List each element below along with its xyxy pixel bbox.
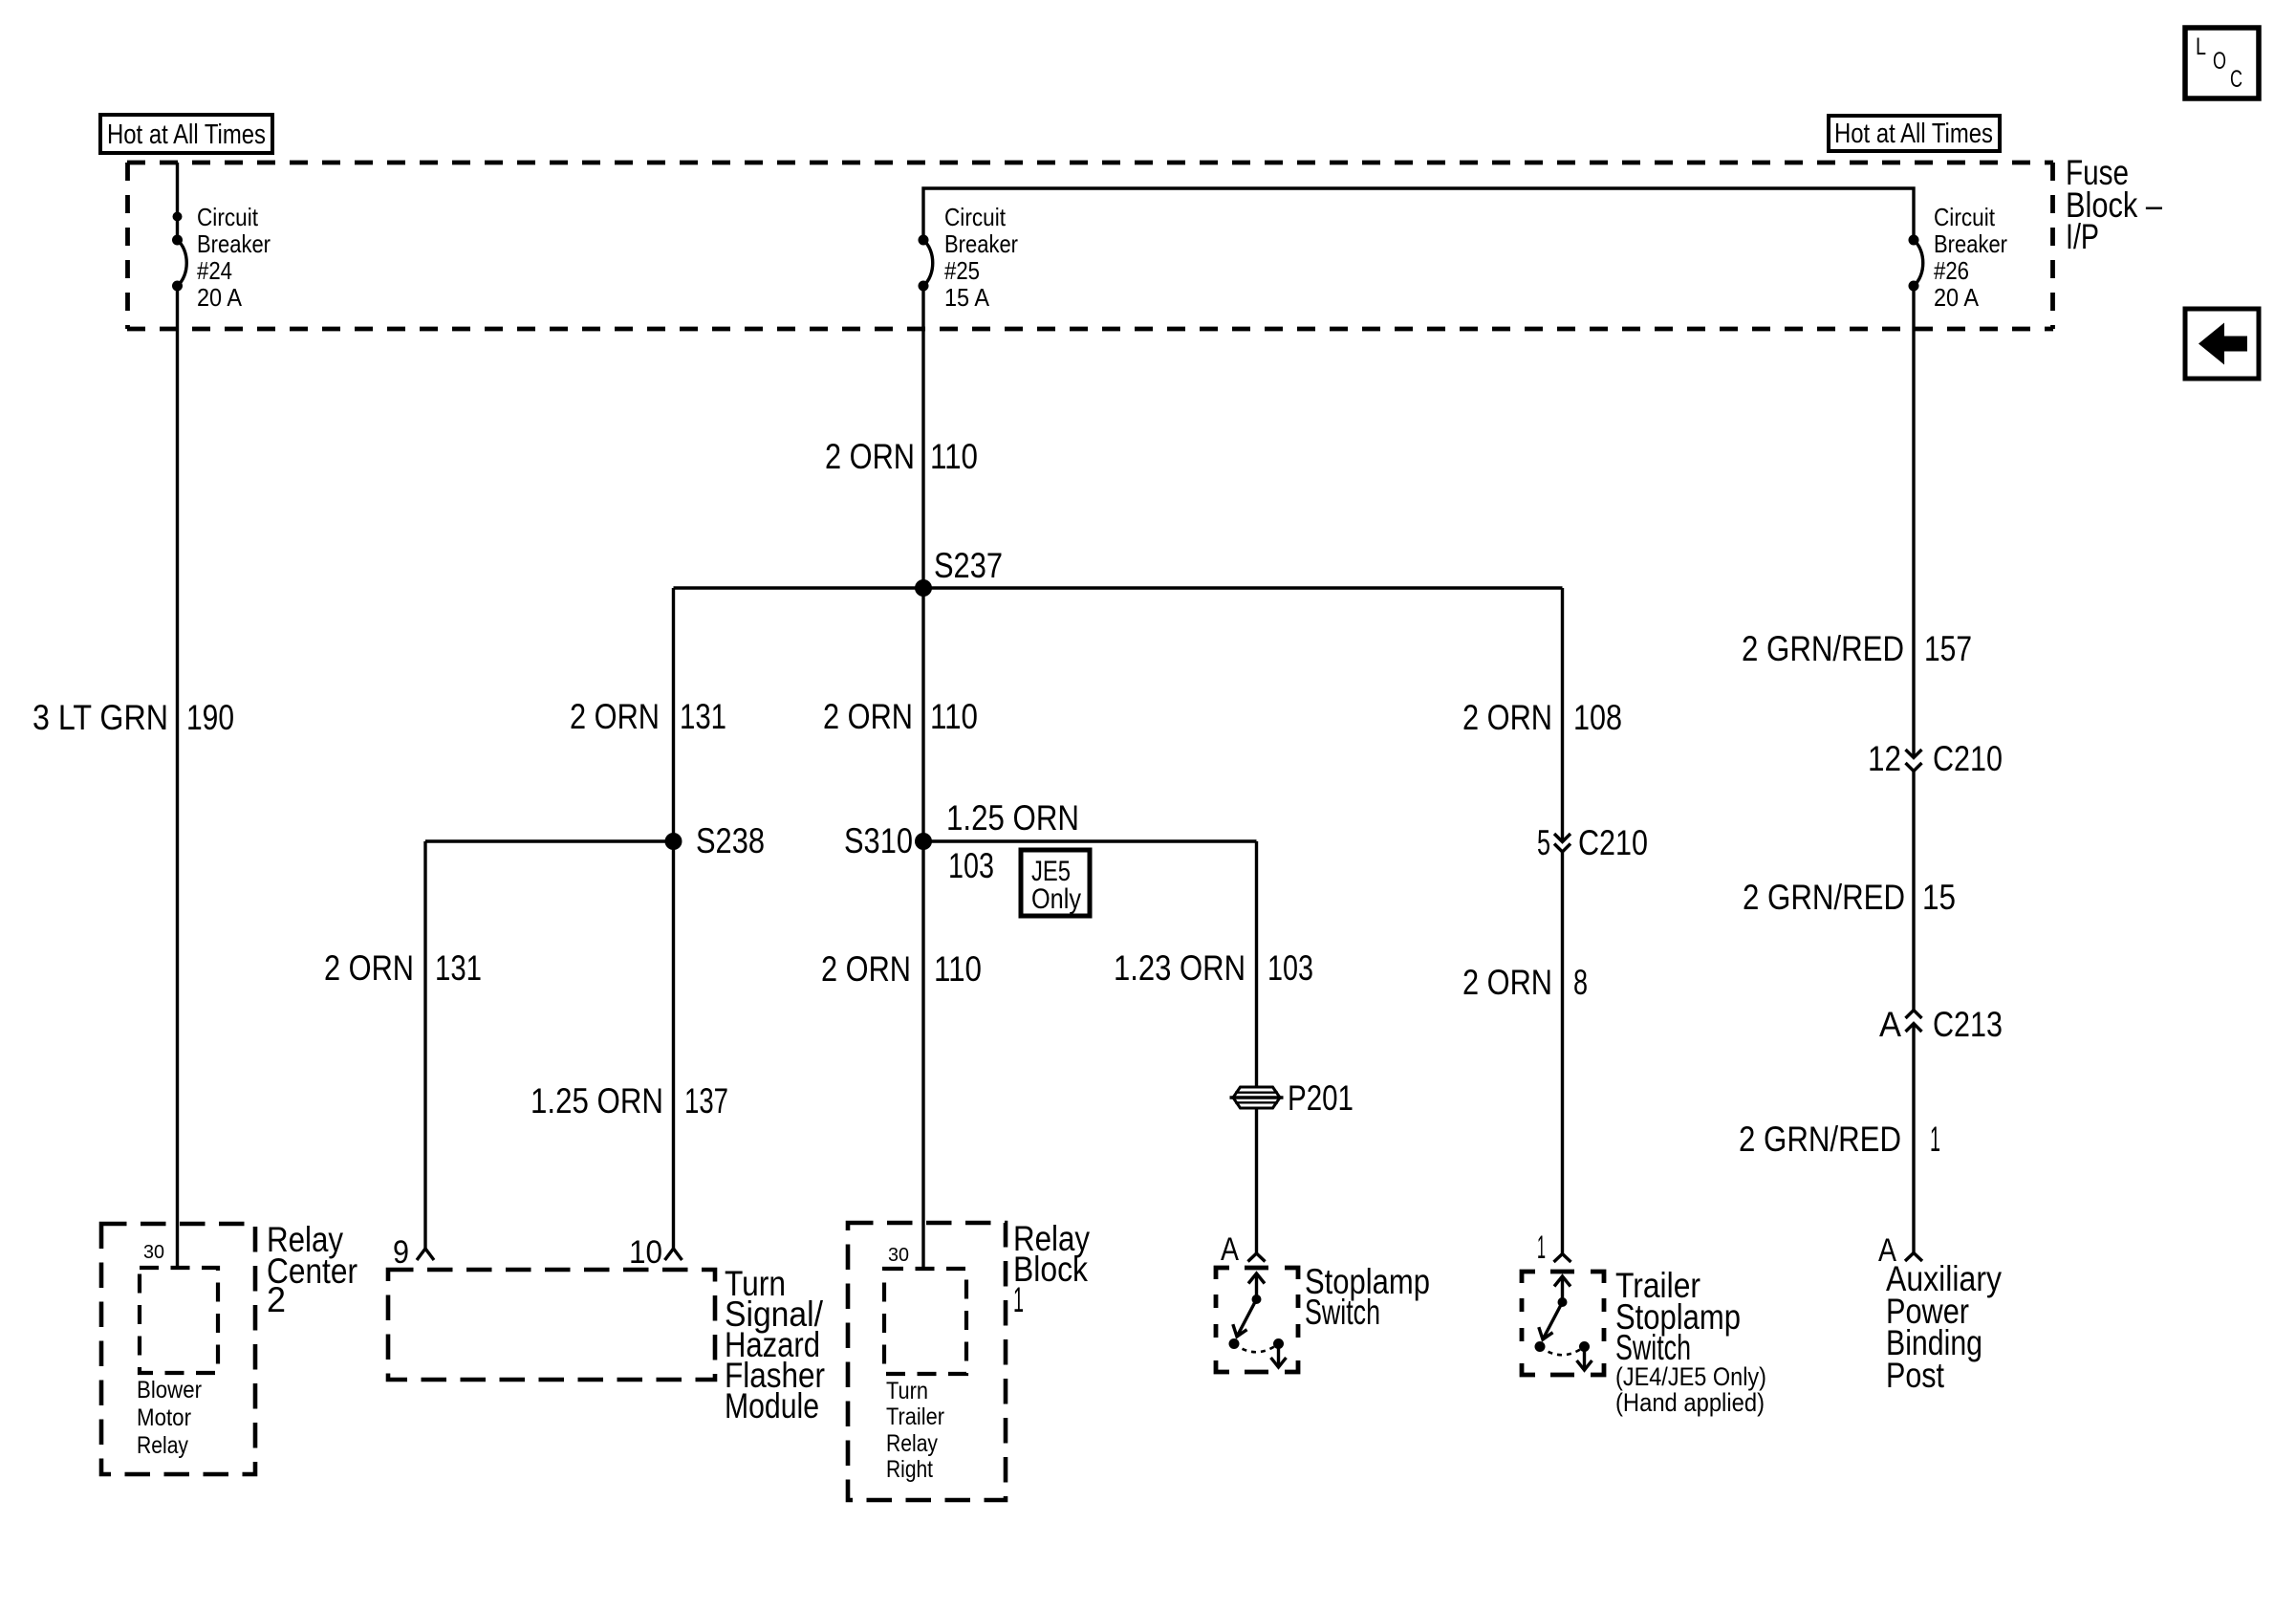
svg-text:S238: S238 [696,821,765,860]
wire: breaker #24 output down to Blower Motor Relay pin 30 [176,286,179,1268]
component: Turn Trailer Relay Right inner dashed box [884,1269,966,1374]
svg-text:O: O [2213,48,2226,75]
svg-text:1: 1 [1013,1280,1024,1319]
wire: S238 horizontal to left branch [425,839,674,842]
svg-text:S237: S237 [934,546,1003,585]
svg-text:9: 9 [393,1234,409,1271]
svg-text:C210: C210 [1933,739,2003,778]
label: Blower Motor Relay [137,1377,202,1459]
svg-text:Trailer: Trailer [886,1403,944,1430]
svg-text:2 GRN/RED: 2 GRN/RED [1742,629,1904,668]
svg-text:Relay: Relay [886,1430,938,1457]
svg-text:2 ORN: 2 ORN [1462,698,1552,737]
svg-text:(JE4/JE5 Only): (JE4/JE5 Only) [1615,1362,1766,1391]
svg-text:110: 110 [934,949,982,989]
pin A chevron (Auxiliary Power Binding Post) [1905,1253,1922,1262]
svg-text:P201: P201 [1288,1078,1354,1118]
circuit breaker #26 [1909,203,2008,312]
label: Relay Center 2 [267,1220,357,1319]
wire label: 2 GRN/RED 1 [1739,1120,1940,1159]
component: Relay Block 1 dashed outline [848,1223,1006,1500]
wire label: 2 GRN/RED 157 [1742,629,1972,668]
label: Stoplamp Switch [1305,1262,1430,1332]
svg-text:8: 8 [1573,963,1588,1002]
svg-text:2 ORN: 2 ORN [821,949,911,989]
svg-text:108: 108 [1573,698,1622,737]
switch symbol: Trailer Stoplamp Switch [1535,1276,1592,1370]
svg-text:S310: S310 [844,821,913,860]
wire: S237 left branch down to S238 [672,588,675,841]
label: Trailer Stoplamp Switch (JE4/JE5 Only) (Hand applied) [1615,1266,1766,1417]
svg-text:1: 1 [1537,1229,1546,1266]
svg-text:2 ORN: 2 ORN [570,697,660,736]
svg-text:2: 2 [267,1280,286,1319]
splice S310 [844,821,932,860]
svg-text:L: L [2196,33,2206,60]
svg-text:Switch: Switch [1615,1328,1691,1367]
svg-text:131: 131 [435,948,482,988]
wire label: 3 LT GRN 190 [32,698,234,737]
component: Turn Signal/Hazard Flasher Module dashed outline [388,1270,715,1380]
svg-text:Breaker: Breaker [197,229,271,258]
svg-text:30: 30 [888,1245,909,1266]
wire: breaker #24 feed (from fuse block top) [176,163,179,240]
svg-text:Switch: Switch [1305,1293,1380,1332]
svg-text:15 A: 15 A [944,283,990,312]
label: Turn Signal/Hazard Flasher Module [725,1264,825,1425]
grommet P201 [1230,1078,1354,1118]
wire label: 1.23 ORN 103 [1114,948,1313,988]
svg-text:12: 12 [1868,739,1901,778]
svg-text:C210: C210 [1578,823,1648,862]
svg-text:1.25 ORN: 1.25 ORN [531,1081,663,1120]
svg-text:103: 103 [948,846,994,885]
component: Fuse Block - I/P dashed outline [127,163,2053,329]
wire: S237 right branch down to trailer stoplamp switch [1561,588,1564,841]
wire label: 2 ORN 110 (upper) [823,697,978,736]
pin 9 chevron [417,1249,434,1260]
svg-text:A: A [1879,1005,1901,1044]
svg-text:110: 110 [930,437,978,476]
svg-text:1.25 ORN: 1.25 ORN [946,798,1079,838]
svg-text:Breaker: Breaker [1934,229,2007,258]
svg-text:#25: #25 [944,256,980,285]
svg-text:15: 15 [1922,878,1956,917]
connector 5 C210 [1537,823,1648,862]
svg-text:2 ORN: 2 ORN [823,697,913,736]
splice S238 [665,821,766,860]
wire label: 1.25 ORN 137 [531,1081,728,1120]
wire: S238 down to flasher module pin 10 [672,841,675,1249]
svg-text:2 ORN: 2 ORN [825,437,915,476]
wire label: 2 GRN/RED 15 [1743,878,1956,917]
LOC marker box [2185,28,2259,98]
svg-text:Relay: Relay [137,1432,188,1459]
wire: S310 branch right then down to stoplamp switch [923,839,1257,842]
label: Relay Block 1 [1013,1219,1090,1319]
wire label: 2 ORN 110 (top, above S237) [825,437,978,476]
svg-text:#26: #26 [1934,256,1969,285]
svg-text:1: 1 [1930,1120,1940,1159]
JE5 Only note box [1021,850,1090,916]
label: Turn Trailer Relay Right [886,1378,944,1483]
svg-text:Module: Module [725,1386,819,1425]
svg-text:103: 103 [1267,948,1313,988]
pin A chevron (Stoplamp Switch) [1248,1253,1266,1262]
svg-text:20 A: 20 A [1934,283,1980,312]
svg-text:A: A [1221,1231,1239,1268]
wire label: 1.25 ORN / 103 (at S310) [946,798,1079,885]
svg-text:C: C [2230,66,2242,93]
svg-text:Circuit: Circuit [1934,203,1996,231]
svg-text:Right: Right [886,1456,933,1483]
svg-text:Hot at All Times: Hot at All Times [107,120,266,150]
svg-text:5: 5 [1537,823,1550,862]
svg-text:30: 30 [143,1242,164,1263]
svg-text:C213: C213 [1933,1005,2003,1044]
svg-text:2 GRN/RED: 2 GRN/RED [1743,878,1905,917]
connector A C213 [1879,1005,2003,1044]
circuit breaker #24 [172,203,271,312]
component: Stoplamp Switch dashed outline [1216,1268,1298,1372]
svg-text:Only: Only [1031,883,1081,915]
svg-text:Circuit: Circuit [944,203,1007,231]
svg-text:Blower: Blower [137,1377,202,1403]
wire: breaker #25 output down through S237 and S310 to Relay Block 1 pin 30 [921,286,924,1269]
component: Trailer Stoplamp Switch dashed outline [1522,1272,1604,1375]
svg-text:1.23 ORN: 1.23 ORN [1114,948,1245,988]
svg-text:Motor: Motor [137,1404,191,1431]
wire: left branch down to flasher module pin 9 [423,841,426,1249]
left-arrow marker box [2185,309,2259,379]
svg-text:2 GRN/RED: 2 GRN/RED [1739,1120,1901,1159]
wire label: 2 ORN 8 [1462,963,1588,1002]
pin 10 chevron [665,1249,682,1260]
svg-text:Circuit: Circuit [197,203,259,231]
wire: breaker #26 output down to Auxiliary Power Binding Post [1912,286,1915,758]
svg-text:(Hand applied): (Hand applied) [1615,1388,1765,1417]
label box: Hot at All Times (right) [1829,116,2000,151]
label: Fuse Block - I/P [2066,153,2162,256]
svg-text:3 LT GRN: 3 LT GRN [32,698,168,737]
svg-text:Post: Post [1886,1356,1945,1395]
svg-text:Block: Block [1013,1250,1088,1289]
svg-text:190: 190 [186,698,234,737]
splice S237 [915,546,1003,597]
svg-text:#24: #24 [197,256,232,285]
svg-text:2 ORN: 2 ORN [324,948,414,988]
circuit breaker #25 [919,203,1019,312]
wire label: 2 ORN 108 [1462,698,1622,737]
connector 12 C210 [1868,739,2003,778]
wire: fuse block internal bus from breaker #25 to breaker #26 [923,188,1914,240]
wire label: 2 ORN 110 (lower) [821,949,982,989]
label: Auxiliary Power Binding Post [1886,1259,2002,1395]
wire label: 2 ORN 131 (upper) [570,697,726,736]
svg-text:Breaker: Breaker [944,229,1018,258]
component: Relay Center 2 dashed outline [101,1224,255,1474]
component: Blower Motor Relay inner dashed box [140,1268,218,1373]
wire: S237 horizontal distribution [674,586,1563,589]
svg-text:2 ORN: 2 ORN [1462,963,1552,1002]
svg-text:10: 10 [629,1234,662,1271]
svg-text:137: 137 [684,1081,728,1120]
pin 1 chevron (Trailer Stoplamp Switch) [1554,1254,1571,1263]
svg-text:20 A: 20 A [197,283,243,312]
svg-text:110: 110 [930,697,978,736]
svg-text:I/P: I/P [2066,217,2099,256]
switch symbol: Stoplamp Switch [1229,1273,1287,1367]
label box: Hot at All Times (left) [100,115,272,153]
wire label: 2 ORN 131 (lower) [324,948,482,988]
svg-text:Turn: Turn [886,1378,928,1404]
svg-text:131: 131 [680,697,726,736]
svg-text:157: 157 [1924,629,1972,668]
svg-text:Hot at All Times: Hot at All Times [1834,119,1993,149]
